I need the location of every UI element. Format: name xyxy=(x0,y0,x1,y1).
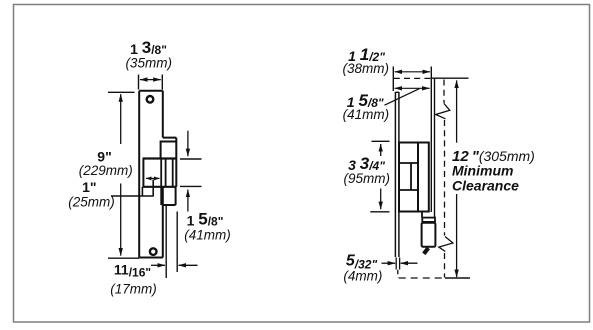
dim 12in upper arrow xyxy=(456,80,458,142)
dim 1-1/2 left tick xyxy=(392,67,394,92)
faceplate outline xyxy=(139,91,163,258)
svg-text:1 5/8": 1 5/8" xyxy=(187,209,224,228)
dim 9in top extension line xyxy=(108,91,135,93)
svg-text:(17mm): (17mm) xyxy=(110,282,157,297)
dim 5/32 left-pointing arrow xyxy=(401,262,418,264)
svg-text:11/16": 11/16" xyxy=(114,262,151,280)
lip step below keeper xyxy=(142,180,153,197)
solenoid connector xyxy=(421,212,423,218)
upper keeper box xyxy=(161,142,177,159)
svg-text:1": 1" xyxy=(82,179,96,195)
dashed clearance vertical segment 1 xyxy=(443,80,445,104)
faceplate side view front line xyxy=(394,92,396,257)
keeper double arrow xyxy=(146,177,160,179)
body inner horizontal upper xyxy=(399,162,418,164)
keeper top line xyxy=(143,157,177,159)
solenoid plunger nub xyxy=(424,248,429,254)
line L2 door face line xyxy=(434,78,436,217)
svg-text:(35mm): (35mm) xyxy=(125,55,172,70)
dashed bottom horizontal (door bottom) xyxy=(399,277,445,279)
body inner small vertical xyxy=(410,163,412,190)
break symbol upper xyxy=(436,104,450,119)
solenoid body xyxy=(422,223,436,247)
dashed clearance vertical segment 2 xyxy=(444,120,446,236)
latchbolt vertical lines xyxy=(161,159,173,206)
dim 1-5/8 bottom extension xyxy=(180,185,202,187)
svg-text:1 3/8": 1 3/8" xyxy=(130,38,167,57)
dim 9in lower arrow xyxy=(120,184,122,256)
body inner horizontal lower xyxy=(399,189,418,191)
dim 9in upper arrow xyxy=(120,94,122,144)
faceplate side view back line xyxy=(398,92,400,257)
svg-text:(41mm): (41mm) xyxy=(343,107,390,122)
extension line left (11/16 dim) xyxy=(165,206,167,279)
solenoid top cap xyxy=(422,218,435,222)
dim 1-3/8 arrow xyxy=(140,79,161,81)
svg-text:Clearance: Clearance xyxy=(452,177,519,193)
dim 1in reference line xyxy=(111,195,153,197)
keeper bottom line xyxy=(143,186,177,188)
dim 3-3/4 down arrow xyxy=(380,189,382,210)
dim 3-3/4 up arrow xyxy=(380,144,382,156)
bottom extension line for 12in xyxy=(445,277,470,279)
dim 1-5/8 up arrow xyxy=(187,190,189,212)
svg-text:(38mm): (38mm) xyxy=(343,61,390,76)
lower box of strike body xyxy=(162,187,176,205)
top mounting hole xyxy=(147,96,154,103)
dim 1-5/8 arrow xyxy=(395,87,430,89)
extension line right (11/16 dim) xyxy=(176,212,178,273)
break symbol lower xyxy=(439,237,453,252)
strike body bump outline xyxy=(163,138,177,187)
svg-text:Minimum: Minimum xyxy=(452,163,513,179)
dim 12in lower arrow xyxy=(456,194,458,277)
dim 5/32 right-pointing arrow xyxy=(382,262,396,264)
dim 11/16 right-pointing arrow xyxy=(151,264,165,266)
dashed top line (door top) xyxy=(394,77,434,79)
dim 1-5/8 top extension xyxy=(180,158,202,160)
top extension line for 12in xyxy=(432,77,469,79)
body inner vertical divider xyxy=(417,143,419,212)
dim 1-1/2 arrow xyxy=(395,71,430,73)
keeper left edge xyxy=(142,159,144,187)
dim 1-5/8 down arrow xyxy=(187,131,189,157)
leader line from 1 5/8 label xyxy=(385,89,420,106)
dim 1-3/8 ticks xyxy=(139,75,163,90)
dim 5/32 ticks xyxy=(396,258,399,270)
dashed clearance vertical segment 3 xyxy=(444,253,446,278)
right figure texts xyxy=(343,45,535,283)
left figure texts xyxy=(68,38,231,297)
dim 11/16 left-pointing arrow xyxy=(179,264,198,266)
svg-text:(229mm): (229mm) xyxy=(79,163,133,178)
dashed short vertical below plate xyxy=(397,270,399,278)
svg-text:(25mm): (25mm) xyxy=(68,195,115,210)
bottom mounting hole xyxy=(150,248,157,255)
dim 9in bottom extension line xyxy=(108,257,139,259)
svg-text:(4mm): (4mm) xyxy=(343,268,382,283)
dim 3-3/4 bottom extension xyxy=(370,211,389,213)
faceplate top cap xyxy=(395,91,399,93)
dim 3-3/4 top extension xyxy=(372,140,390,142)
strike body outline xyxy=(399,143,429,212)
line L1 (1-1/2 tick extended) xyxy=(430,67,432,213)
svg-text:(41mm): (41mm) xyxy=(184,228,231,243)
svg-text:(95mm): (95mm) xyxy=(344,171,391,186)
